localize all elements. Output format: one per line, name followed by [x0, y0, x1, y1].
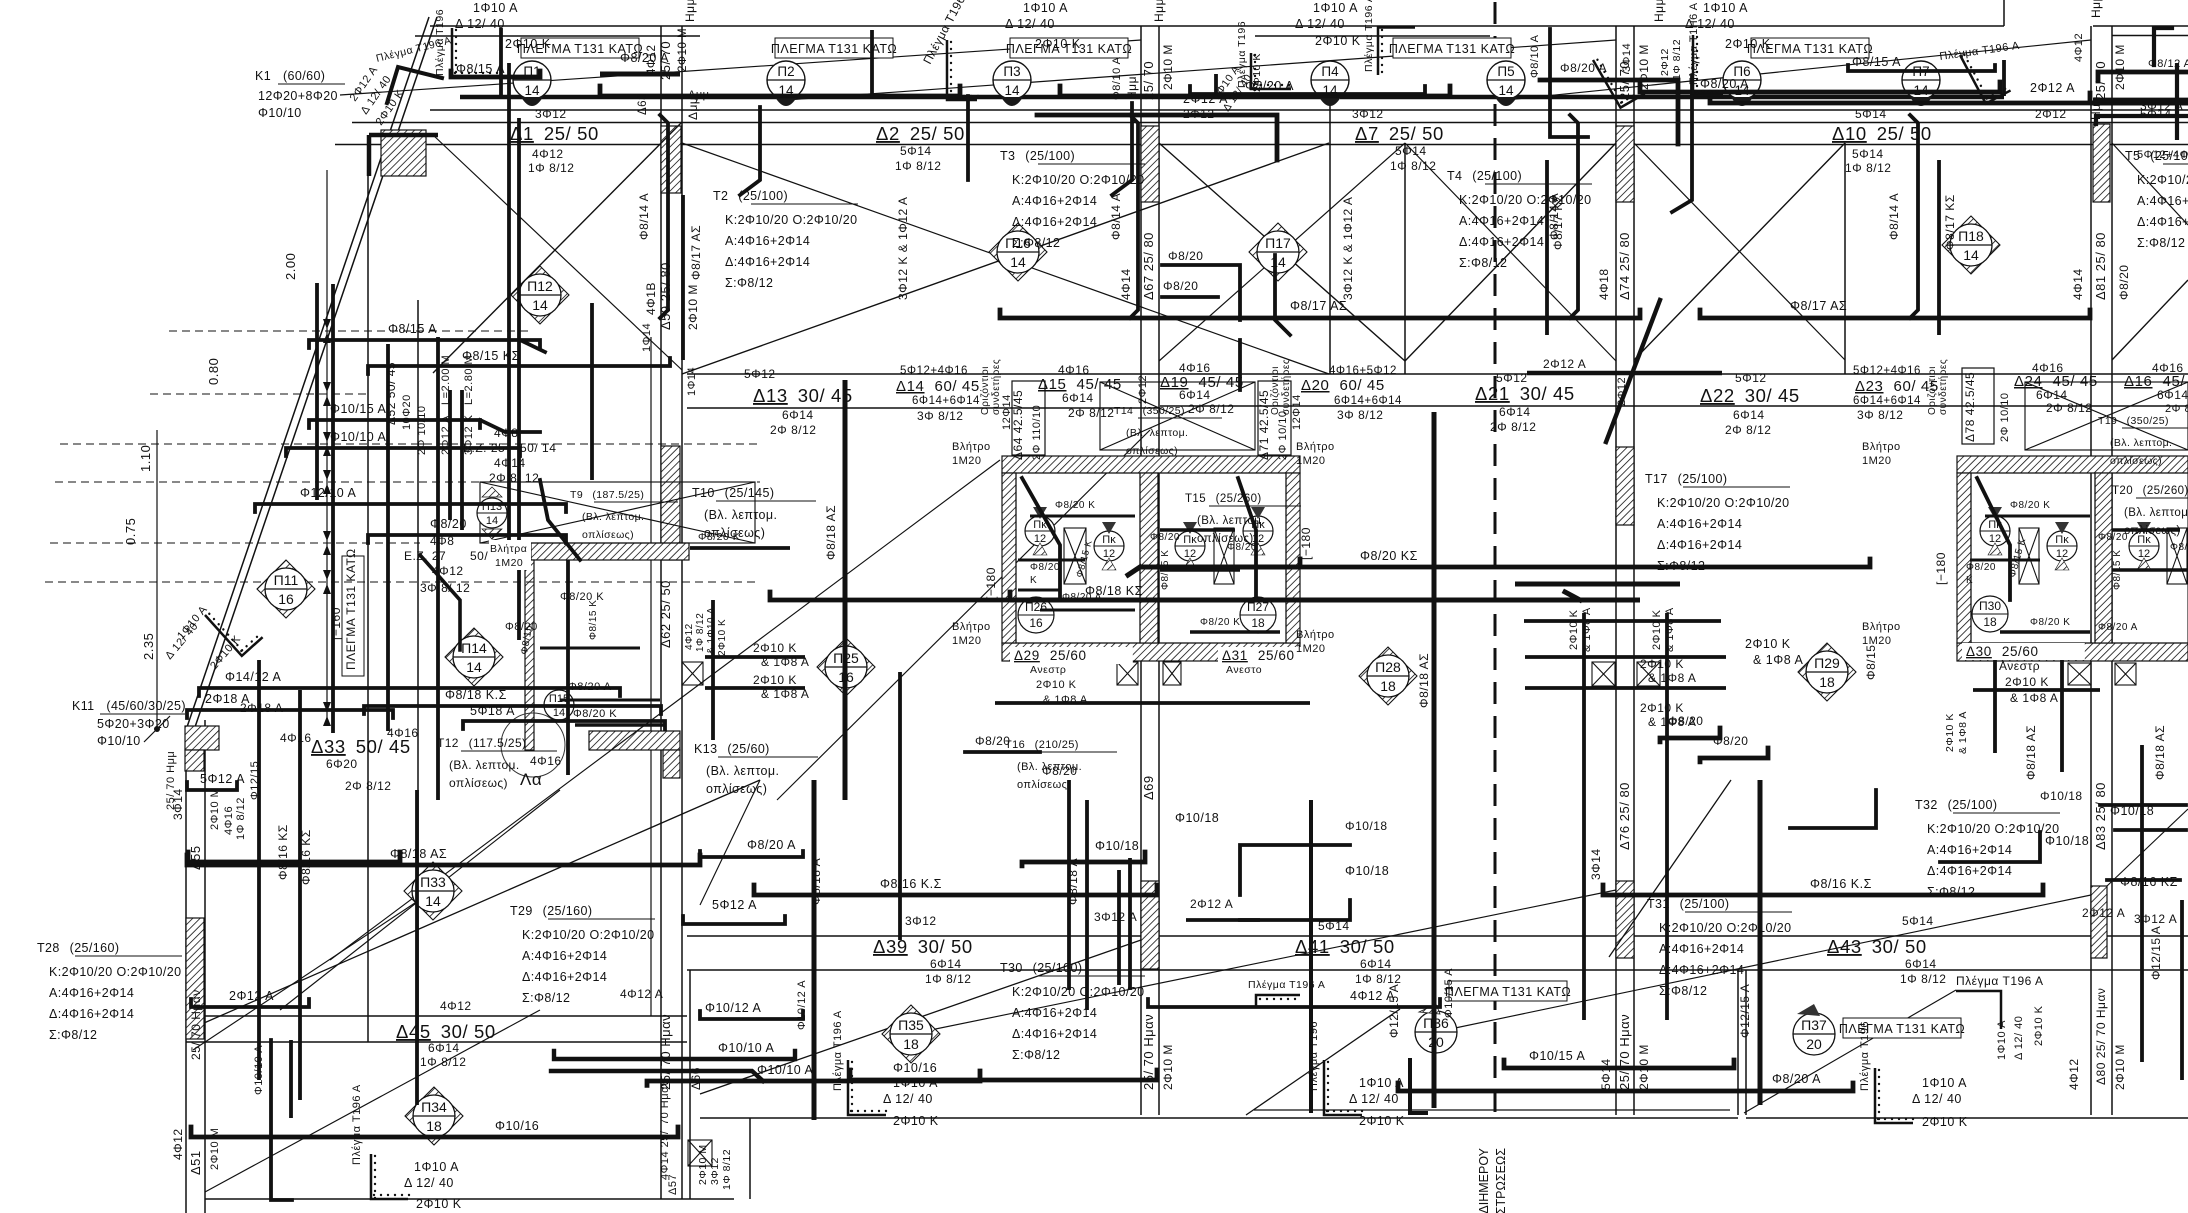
T19 spec small — [2098, 415, 2188, 467]
plegma L mark bay3 top-foot — [1378, 28, 1415, 76]
svg-text:1Μ20: 1Μ20 — [1862, 455, 1892, 467]
svg-text:Φ10/10: Φ10/10 — [97, 734, 141, 748]
rebar L foot x1410 — [1410, 1060, 1426, 1113]
stair right bottom hatched band — [1957, 643, 2188, 661]
svg-text:Σ:Φ8/12: Σ:Φ8/12 — [49, 1028, 97, 1042]
svg-text:2Φ10 Κ: 2Φ10 Κ — [1036, 679, 1077, 691]
svg-text:2Φ12: 2Φ12 — [1659, 48, 1671, 76]
svg-text:T28 (25/160): T28 (25/160) — [37, 941, 119, 955]
svg-text:2Φ10 Κ: 2Φ10 Κ — [753, 673, 797, 687]
svg-text:5Φ12: 5Φ12 — [1735, 371, 1767, 385]
plegma T131 box top — [1006, 38, 1132, 58]
rebar F8/20 A top bay3 — [1640, 82, 2000, 92]
svg-text:4Φ12: 4Φ12 — [646, 45, 658, 75]
svg-text:[−180: [−180 — [984, 567, 998, 600]
xbox below stair right 2 — [2115, 663, 2136, 685]
rebar vertical x1434 — [1432, 412, 1437, 1108]
svg-text:2Φ 8/12: 2Φ 8/12 — [1490, 420, 1536, 434]
svg-text:Φ8/16 Κ.Σ: Φ8/16 Κ.Σ — [1810, 877, 1872, 891]
svg-text:[−180: [−180 — [1299, 527, 1313, 560]
pk column circle 4 — [1243, 507, 1273, 555]
svg-text:1Φ10 Α: 1Φ10 Α — [1922, 1076, 1967, 1090]
svg-text:T15 (25/260): T15 (25/260) — [1185, 493, 1262, 505]
column P18 diamond — [1942, 216, 2000, 274]
column K1 thick L border — [367, 135, 372, 176]
rebar vertical x1584 — [1582, 613, 1586, 1020]
long diagonal left stair La — [280, 790, 560, 1010]
wall hatch strip2 top — [1141, 126, 1159, 202]
svg-text:T31 (25/100): T31 (25/100) — [1647, 897, 1729, 911]
svg-text:4Φ14: 4Φ14 — [2071, 268, 2085, 300]
beam section box D71 — [1258, 381, 1291, 455]
wire dashed E.Z. line y582 — [45, 581, 760, 583]
svg-text:6Φ14+6Φ14: 6Φ14+6Φ14 — [1853, 395, 1921, 407]
rebar F8/14 A vertical bay2 — [1130, 115, 1138, 318]
svg-text:2Φ10 Κ: 2Φ10 Κ — [505, 37, 551, 51]
slab panel X cross bay2 — [682, 143, 1329, 374]
column P36 circle — [1415, 1004, 1457, 1053]
svg-text:Φ8/18 Κ.Σ: Φ8/18 Κ.Σ — [445, 688, 507, 702]
svg-text:16: 16 — [278, 591, 294, 607]
rebar 5F12 A left — [683, 916, 785, 924]
svg-text:Δ1330/ 45: Δ1330/ 45 — [753, 385, 853, 406]
svg-text:2Φ 8/12: 2Φ 8/12 — [2165, 403, 2188, 415]
wire left edge vertical — [185, 730, 187, 1213]
plegma L mark bottom4 — [1875, 1068, 1914, 1123]
stair right left hatched wall — [1957, 473, 1971, 643]
svg-text:Πλέγμα Τ196 Α: Πλέγμα Τ196 Α — [1248, 979, 1325, 991]
svg-text:4Φ16: 4Φ16 — [2152, 361, 2184, 375]
rebar F10/16 bottom mid — [850, 1070, 1157, 1080]
stair right tall xbox 1 — [2019, 528, 2039, 584]
svg-text:0.75: 0.75 — [123, 518, 138, 545]
svg-text:2Φ10 Κ: 2Φ10 Κ — [1315, 34, 1361, 48]
svg-text:50/ 14: 50/ 14 — [520, 441, 556, 455]
beam D29 25/60 label — [1010, 647, 1133, 664]
svg-text:3Φ14: 3Φ14 — [1589, 848, 1603, 880]
svg-text:Φ10/12 Α: Φ10/12 Α — [796, 980, 808, 1030]
svg-text:Φ10/10: Φ10/10 — [258, 106, 302, 120]
svg-text:& 1Φ8 Α: & 1Φ8 Α — [761, 655, 809, 669]
svg-text:1Μ20: 1Μ20 — [952, 455, 982, 467]
svg-text:& 1Φ8 Α: & 1Φ8 Α — [761, 687, 809, 701]
plegma L mark top5 — [1693, 35, 1725, 95]
svg-text:Π33: Π33 — [420, 874, 446, 890]
svg-text:L=2.80 Μ: L=2.80 Μ — [463, 355, 475, 405]
rebar vertical x2062 — [2060, 660, 2064, 772]
svg-text:Φ8/20: Φ8/20 — [1668, 714, 1703, 728]
slab panel X cross bay3 — [1405, 143, 1616, 361]
svg-text:25/ 70: 25/ 70 — [1141, 61, 1156, 100]
svg-text:6Φ14: 6Φ14 — [428, 1041, 460, 1055]
plegma L mark bottom2 — [848, 1060, 887, 1115]
svg-text:Α:4Φ16+2Φ14: Α:4Φ16+2Φ14 — [1012, 1006, 1097, 1020]
rebar anestr line left stair — [995, 701, 1310, 705]
pk column circle 5 — [1980, 507, 2010, 555]
svg-text:1Φ 8/12: 1Φ 8/12 — [925, 972, 971, 986]
label Blitra 1M20 at corner band — [489, 540, 531, 570]
wire left slab edge diagonal outer — [186, 17, 429, 730]
svg-text:2Φ10 Μ: 2Φ10 Μ — [209, 1128, 221, 1170]
svg-text:Δ 12/ 40: Δ 12/ 40 — [455, 17, 505, 31]
wire column strip 4 right line — [2111, 26, 2113, 1115]
svg-text:18: 18 — [903, 1036, 919, 1052]
T30 spec block — [1000, 961, 1145, 1062]
rebar F10/18 hook right column — [2115, 828, 2186, 832]
svg-text:Δ67 25/ 80: Δ67 25/ 80 — [1141, 232, 1156, 300]
beam D7 25/50 label — [1355, 123, 1444, 144]
svg-text:Σ:Φ8/12: Σ:Φ8/12 — [1459, 256, 1507, 270]
wire bottom inner line right bay — [1254, 1109, 1730, 1111]
wall hatch strip3 at D73 — [1616, 881, 1634, 958]
svg-text:2Φ10 Κ: 2Φ10 Κ — [2005, 675, 2049, 689]
rebar F8/20 KS band — [1300, 559, 1870, 567]
svg-text:4Φ12: 4Φ12 — [440, 999, 472, 1013]
slab panel X cross bay1 — [433, 122, 682, 373]
beam strip D45 top line — [186, 1015, 687, 1017]
svg-text:2Φ 10/10: 2Φ 10/10 — [1999, 393, 2011, 442]
rebar vertical through P25 — [843, 380, 848, 800]
svg-text:Φ12/15 Α: Φ12/15 Α — [1738, 984, 1752, 1038]
svg-text:(Βλ. λεπτομ.: (Βλ. λεπτομ. — [582, 511, 644, 523]
plegma L mark bottom3 — [1324, 1060, 1363, 1115]
svg-text:Πκ: Πκ — [1183, 534, 1197, 546]
svg-text:4Φ16: 4Φ16 — [1179, 361, 1211, 375]
svg-text:Δ62 25/ 50: Δ62 25/ 50 — [658, 580, 673, 648]
stair flight diagonal left — [204, 780, 760, 1023]
svg-text:Φ10/16: Φ10/16 — [495, 1119, 539, 1133]
wall hatch left edge band lower — [186, 918, 204, 1039]
rebar hook top2 — [1238, 340, 1242, 390]
beam D14 60/45 label — [896, 378, 980, 395]
left stair zone slanted rebar near T9 — [540, 480, 580, 560]
stair left top hatched band — [1002, 456, 1300, 473]
svg-text:Κ:2Φ10/20 Ο:2Φ10/20: Κ:2Φ10/20 Ο:2Φ10/20 — [1659, 921, 1792, 935]
svg-text:Π35: Π35 — [898, 1017, 924, 1033]
xbox at D62 — [682, 662, 703, 685]
svg-text:T32 (25/100): T32 (25/100) — [1915, 798, 1997, 812]
beam D30 25/60 label — [1962, 643, 2085, 660]
svg-text:Φ8/18 ΑΣ: Φ8/18 ΑΣ — [2153, 725, 2167, 780]
svg-text:1Φ10 Α: 1Φ10 Α — [1359, 1076, 1404, 1090]
svg-text:Φ10/18: Φ10/18 — [1345, 864, 1389, 878]
beam strip 30/45 top line — [687, 373, 2188, 375]
svg-text:1Φ10 Α: 1Φ10 Α — [414, 1160, 459, 1174]
svg-text:Φ8/20 Α: Φ8/20 Α — [2098, 622, 2138, 633]
svg-text:(Βλ. λεπτομ.: (Βλ. λεπτομ. — [706, 764, 779, 778]
svg-text:3Φ12 Κ & 1Φ12 Α: 3Φ12 Κ & 1Φ12 Α — [896, 197, 910, 300]
svg-text:οπλίσεως): οπλίσεως) — [1126, 445, 1178, 457]
svg-text:6Φ14: 6Φ14 — [2036, 388, 2068, 402]
column P25 diamond — [817, 638, 875, 696]
svg-text:Φ8/15 Κ: Φ8/15 Κ — [588, 600, 599, 640]
svg-text:12Φ20+8Φ20: 12Φ20+8Φ20 — [258, 89, 338, 103]
xbox below stair mid 2 — [1637, 662, 1660, 686]
svg-text:6Φ14+6Φ14: 6Φ14+6Φ14 — [1334, 395, 1402, 407]
svg-text:Πλέγμα Τ196: Πλέγμα Τ196 — [1308, 1021, 1320, 1091]
wire dashed centerline of building — [1494, 2, 1497, 1120]
svg-text:3Φ12: 3Φ12 — [709, 1157, 721, 1185]
svg-text:Δ81 25/ 80: Δ81 25/ 80 — [2093, 232, 2108, 300]
svg-text:& 1Φ8 Α: & 1Φ8 Α — [2010, 691, 2058, 705]
svg-text:Π17: Π17 — [1265, 235, 1291, 251]
svg-text:1Φ 8/12: 1Φ 8/12 — [235, 797, 247, 840]
rebar vertical x2142 — [2140, 745, 2144, 1062]
svg-text:Ανεστρ: Ανεστρ — [1030, 664, 1066, 676]
svg-text:Δ59 25/ 80: Δ59 25/ 80 — [658, 262, 673, 330]
rebar F10/16 bottom left — [191, 1127, 678, 1137]
rebar F8/20 A bottom — [1398, 1083, 1853, 1091]
stair left internal lines — [1030, 515, 1135, 518]
stair left central hatched wall — [1140, 473, 1158, 643]
svg-text:Π5: Π5 — [1497, 64, 1514, 79]
slab panel X cross bay5 partial — [2112, 280, 2188, 360]
svg-text:Δ2060/ 45: Δ2060/ 45 — [1301, 377, 1385, 394]
svg-text:2Φ12 Α: 2Φ12 Α — [1190, 897, 1233, 911]
svg-text:2Φ12 Α: 2Φ12 Α — [2082, 906, 2125, 920]
svg-text:3Φ 8/12: 3Φ 8/12 — [1337, 408, 1383, 422]
rebar 4F12 A bottom — [1148, 999, 1440, 1007]
svg-text:[−180: [−180 — [1934, 552, 1948, 585]
T15 spec small — [1185, 493, 1301, 545]
svg-text:4Φ18: 4Φ18 — [1597, 268, 1611, 300]
svg-text:Α:4Φ16+2Φ14: Α:4Φ16+2Φ14 — [1659, 942, 1744, 956]
T16 spec small — [1005, 739, 1117, 791]
svg-text:Π12: Π12 — [527, 278, 553, 294]
rebar verticals x1119 x1130 — [1117, 870, 1121, 985]
svg-text:Α:4Φ16+2Φ14: Α:4Φ16+2Φ14 — [1657, 517, 1742, 531]
svg-text:2Φ10 Κ: 2Φ10 Κ — [1359, 1114, 1405, 1128]
rebar pair 2F10K right stair — [1973, 688, 2100, 692]
plegma T131 box top — [1747, 38, 1873, 58]
rebar F8/20 A bottom small — [700, 851, 803, 857]
rebar vertical x291 — [289, 1040, 293, 1118]
svg-text:4Φ16: 4Φ16 — [223, 806, 235, 835]
svg-text:Ημμ: Ημμ — [1652, 0, 1666, 22]
long diagonal P35 leader — [911, 890, 1616, 1034]
svg-text:Δ4330/ 50: Δ4330/ 50 — [1827, 936, 1927, 957]
plegma T131 box top — [1389, 38, 1515, 58]
svg-text:& 1Φ8 Α: & 1Φ8 Α — [1753, 653, 1803, 667]
long diagonal top bay3 leader — [1506, 40, 2091, 100]
column P17 diamond — [1249, 223, 1307, 281]
svg-text:Βλήτρο: Βλήτρο — [952, 621, 991, 633]
plegma L mark top1 vertical — [452, 28, 498, 77]
T20 spec small — [2112, 485, 2188, 537]
rebar vertical x2182 — [2180, 900, 2184, 1080]
stair left landing lines — [1016, 473, 1140, 643]
plegma L mark slanted arm — [387, 67, 442, 103]
svg-text:2Φ12 Α: 2Φ12 Α — [229, 989, 274, 1003]
rebar F10/10 A bottom left — [554, 1051, 795, 1059]
stair right top hatched band — [1957, 456, 2188, 473]
svg-text:5Φ12: 5Φ12 — [744, 367, 776, 381]
svg-text:Δ:4Φ16+2Φ14: Δ:4Φ16+2Φ14 — [1459, 235, 1544, 249]
T5 spec block — [2125, 149, 2188, 250]
svg-text:5Φ12+4Φ16: 5Φ12+4Φ16 — [1853, 365, 1921, 377]
wire column strip 4 left line — [2090, 26, 2092, 1115]
rebar verticals top bay3 — [1690, 74, 1694, 96]
svg-text:Φ8/20: Φ8/20 — [1042, 764, 1077, 778]
svg-text:Δ3025/60: Δ3025/60 — [1966, 644, 2039, 659]
svg-text:Φ8/20: Φ8/20 — [1227, 542, 1257, 553]
svg-text:Φ8/20: Φ8/20 — [1163, 279, 1198, 293]
column P14 diamond — [445, 628, 503, 686]
beam D19 45/45 label — [1160, 374, 1244, 391]
stair flight diagonal right — [1609, 780, 1731, 957]
svg-text:2Φ10 Κ: 2Φ10 Κ — [416, 1197, 462, 1211]
svg-text:1Φ14: 1Φ14 — [641, 323, 653, 352]
svg-text:& 1Φ8 Α: & 1Φ8 Α — [1648, 671, 1696, 685]
svg-text:Δ 12/ 40: Δ 12/ 40 — [1912, 1092, 1962, 1106]
column P1 circle — [513, 61, 551, 106]
slab panel X cross bay3b — [1159, 143, 1405, 361]
svg-text:2Φ 10/10: 2Φ 10/10 — [1277, 411, 1289, 460]
wall hatch strip1 top — [661, 126, 681, 193]
K13 spec small — [694, 742, 818, 796]
pk column circle 3 — [1175, 522, 1205, 570]
svg-text:18: 18 — [1380, 678, 1396, 694]
svg-text:οπλίσεως): οπλίσεως) — [582, 529, 634, 541]
wall hatch lower left band — [589, 731, 680, 750]
rebar vertical x568 — [566, 560, 570, 775]
svg-text:Φ8/14 Α: Φ8/14 Α — [637, 193, 651, 240]
svg-text:4Φ8: 4Φ8 — [430, 534, 454, 548]
svg-text:Φ8/20 Κ: Φ8/20 Κ — [2030, 617, 2070, 628]
svg-text:Φ8/20: Φ8/20 — [2098, 532, 2128, 543]
svg-text:(Βλ. λεπτομ.: (Βλ. λεπτομ. — [2110, 437, 2172, 449]
svg-text:Βλήτρα: Βλήτρα — [490, 543, 527, 555]
svg-text:2Φ 8/12: 2Φ 8/12 — [345, 779, 391, 793]
T2 spec block — [713, 189, 858, 290]
stair diagonal bottom left bay — [205, 1010, 540, 1192]
svg-text:5Φ14: 5Φ14 — [1902, 914, 1934, 928]
svg-text:ΔΙΗΜΕΡΟΥ: ΔΙΗΜΕΡΟΥ — [1477, 1147, 1491, 1213]
K11 spec label — [72, 699, 186, 748]
svg-text:οπλίσεως): οπλίσεως) — [2110, 455, 2162, 467]
svg-text:Φ12/10 Α: Φ12/10 Α — [300, 486, 357, 500]
rebar hooks right of strip2 upper — [1162, 265, 1240, 320]
svg-text:Δ:4Φ16+2Φ14: Δ:4Φ16+2Φ14 — [725, 255, 810, 269]
T9 crossed detail rect — [480, 482, 755, 543]
rebar 2F12A short line mid-bottom — [1186, 918, 1260, 922]
svg-text:2Φ10 Μ: 2Φ10 Μ — [697, 1144, 709, 1185]
svg-text:ΣΤΡΩΣΕΩΣ: ΣΤΡΩΣΕΩΣ — [1494, 1148, 1508, 1213]
svg-text:(Βλ. λεπτομ.: (Βλ. λεπτομ. — [449, 758, 520, 772]
rebar vertical x388 — [386, 344, 390, 731]
svg-text:4Φ8: 4Φ8 — [494, 426, 518, 440]
rebar F8/18 KS mid band — [770, 592, 1010, 600]
svg-text:14: 14 — [486, 515, 498, 527]
svg-text:5Φ12 Α: 5Φ12 Α — [712, 898, 757, 912]
wall hatch strip4 top — [2093, 124, 2110, 202]
T31 spec block — [1647, 897, 1792, 998]
svg-text:5Φ14: 5Φ14 — [1395, 144, 1427, 158]
wire column strip 1 right line — [681, 26, 683, 1199]
svg-text:Κ:2Φ10/20 Ο:2Φ10/20: Κ:2Φ10/20 Ο:2Φ10/20 — [522, 928, 655, 942]
T9 spec small — [570, 489, 678, 541]
beam D20 60/45 label — [1301, 377, 1385, 394]
svg-text:Φ8/20: Φ8/20 — [1168, 249, 1203, 263]
svg-text:3Φ12: 3Φ12 — [535, 107, 567, 121]
beam D16 45/45 label — [2124, 373, 2185, 390]
rebar vertical x814 — [812, 780, 817, 1120]
svg-text:Π4: Π4 — [1321, 64, 1339, 79]
wire top border — [430, 25, 2004, 27]
rebar F8/18 KS — [364, 706, 661, 714]
svg-text:Δ1460/ 45: Δ1460/ 45 — [896, 378, 980, 395]
svg-text:Π3: Π3 — [1003, 64, 1020, 79]
svg-text:4Φ16: 4Φ16 — [280, 731, 312, 745]
svg-text:Δ80 25/ 70 Ημαν: Δ80 25/ 70 Ημαν — [2094, 988, 2108, 1085]
rebar verticals top bay1 — [499, 28, 503, 96]
svg-text:T14 (350/25): T14 (350/25) — [1114, 405, 1185, 417]
svg-text:2Φ 8/ 12: 2Φ 8/ 12 — [489, 471, 539, 485]
beam D31 label — [1218, 647, 1341, 664]
svg-text:Ημμ: Ημμ — [1125, 76, 1139, 100]
svg-text:T2 (25/100): T2 (25/100) — [713, 189, 788, 203]
svg-text:Δ 12/ 40: Δ 12/ 40 — [883, 1092, 933, 1106]
svg-text:2Φ10 Κ: 2Φ10 Κ — [1640, 657, 1684, 671]
svg-text:2Φ10 Κ: 2Φ10 Κ — [1725, 37, 1771, 51]
svg-text:Φ10/18: Φ10/18 — [1345, 819, 1388, 833]
svg-text:14: 14 — [532, 297, 548, 313]
svg-text:Φ8/20 Κ: Φ8/20 Κ — [1055, 500, 1095, 511]
svg-text:1Φ10 Α: 1Φ10 Α — [1703, 1, 1748, 15]
wire mid-panel divider verticals — [1329, 97, 1331, 374]
pk column circle 6 — [2047, 522, 2077, 570]
rebar hook mid — [1275, 255, 1290, 335]
beam D2 25/50 label — [876, 123, 965, 144]
svg-text:(Βλ. λεπτομ.: (Βλ. λεπτομ. — [1126, 427, 1188, 439]
beam D13 30/45 label — [753, 385, 853, 406]
wire column strip 3 right line — [1633, 26, 1635, 1115]
column P6 circle — [1723, 61, 1761, 106]
svg-text:2Φ 8/12: 2Φ 8/12 — [770, 423, 816, 437]
wire dashed dim line y394 — [150, 393, 368, 395]
svg-text:Δ 12/ 40: Δ 12/ 40 — [1005, 17, 1055, 31]
svg-text:Οριζόντιοι: Οριζόντιοι — [979, 366, 991, 415]
svg-text:1Φ 8/12: 1Φ 8/12 — [895, 159, 941, 173]
svg-text:2.00: 2.00 — [283, 253, 298, 280]
rebar F8/15 A left 1 — [309, 340, 540, 348]
svg-text:Π29: Π29 — [1814, 655, 1840, 671]
svg-text:1Μ20: 1Μ20 — [495, 557, 523, 569]
svg-text:6Φ14: 6Φ14 — [1499, 405, 1531, 419]
svg-text:4Φ12: 4Φ12 — [171, 1128, 185, 1160]
svg-text:14: 14 — [1963, 247, 1979, 263]
beam strip D39-D43 top line — [687, 935, 2188, 937]
svg-text:Π11: Π11 — [274, 572, 299, 588]
plegma T131 box top — [517, 38, 643, 58]
svg-text:Φ10/15 Α: Φ10/15 Α — [1529, 1049, 1586, 1063]
svg-text:4Φ1Β: 4Φ1Β — [644, 282, 658, 315]
svg-text:14: 14 — [553, 707, 565, 719]
svg-text:2Φ10 Κ: 2Φ10 Κ — [1640, 701, 1684, 715]
svg-text:Π14: Π14 — [461, 640, 487, 656]
stair flight diagonal mid — [700, 940, 1141, 1094]
svg-text:2Φ 8/12: 2Φ 8/12 — [1188, 402, 1234, 416]
stair left right hatched wall — [1286, 473, 1300, 643]
rebar F8/16 KS left — [188, 852, 400, 862]
stair left tall xbox 2 — [1214, 528, 1234, 584]
rebar 2F12A hooked line bay2 — [1037, 115, 1277, 160]
rebar 2F12 A bottom left — [191, 999, 309, 1007]
svg-text:2Φ12 Α: 2Φ12 Α — [1543, 357, 1586, 371]
rebar thick vertical x438 — [436, 337, 440, 800]
svg-text:T9 (187.5/25): T9 (187.5/25) — [570, 489, 644, 501]
svg-text:T12 (117.5/25): T12 (117.5/25) — [437, 736, 526, 750]
